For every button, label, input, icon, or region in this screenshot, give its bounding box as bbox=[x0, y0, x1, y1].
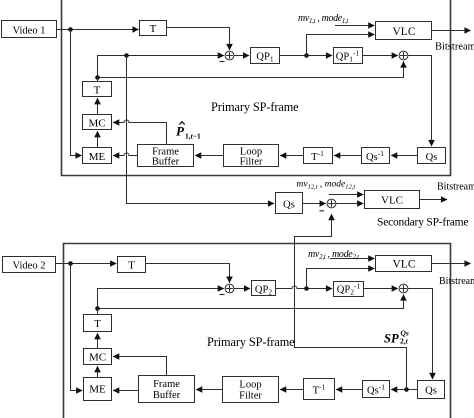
svg-text:Bitstream: Bitstream bbox=[437, 182, 474, 193]
wire Qs2 to Qs2inv bbox=[391, 389, 417, 391]
svg-text:VLC: VLC bbox=[393, 259, 416, 271]
block QP1inv bbox=[334, 48, 363, 64]
block Qs2inv bbox=[363, 381, 390, 398]
wire VLC1 to bitstream 1 bbox=[432, 30, 471, 32]
wire QP2inv to adder D2 bbox=[364, 288, 398, 290]
adder D1 bbox=[399, 51, 408, 60]
svg-text:P: P bbox=[176, 124, 185, 139]
Video 2 source box bbox=[3, 257, 56, 273]
svg-text:Filter: Filter bbox=[240, 157, 263, 168]
svg-text:Qs: Qs bbox=[425, 386, 437, 397]
subtractor S1 bbox=[225, 51, 234, 60]
block Loop Filter 2 bbox=[223, 377, 279, 403]
svg-text:Buffer: Buffer bbox=[152, 157, 180, 168]
wire Video1 to T1 bbox=[57, 29, 139, 31]
wire node C1 up to VLC1 bbox=[307, 35, 375, 56]
adder D2 bbox=[399, 284, 408, 293]
wire T2inv to Loop Filter 2 bbox=[280, 389, 303, 391]
block VLC1 bbox=[376, 22, 432, 40]
wire Frame Buffer 2 to MC2 bbox=[113, 357, 166, 376]
svg-text:ME: ME bbox=[89, 384, 106, 396]
wire Frame Buffer 1 to ME1 (hop over vertical) bbox=[113, 153, 137, 156]
subtractor S2 bbox=[225, 284, 234, 293]
wire Video2 to T3 bbox=[56, 263, 117, 265]
svg-text:T: T bbox=[94, 318, 101, 330]
wire T3 to subtractor S2 top bbox=[146, 264, 230, 283]
wire adder D2 to Qs2 bbox=[408, 289, 433, 380]
wire Frame Buffer 1 to MC1 (hop over vertical) bbox=[113, 120, 166, 145]
block MC1 bbox=[83, 115, 112, 130]
minus sign S2 bbox=[220, 294, 225, 296]
wire Loop Filter 2 to Frame Buffer 2 bbox=[196, 389, 222, 391]
block Loop Filter 1 bbox=[224, 145, 279, 167]
node E1 (junction at T2 top) bbox=[95, 75, 100, 80]
wire Loop Filter 1 to Frame Buffer 1 bbox=[195, 155, 223, 157]
svg-text:Buffer: Buffer bbox=[153, 390, 181, 401]
block T1 (transform) bbox=[140, 21, 167, 36]
block QP1 bbox=[251, 48, 280, 64]
wire T2 top stub bbox=[97, 78, 99, 82]
block T2 (prediction transform) bbox=[83, 82, 112, 97]
wire SP signal from node F up to secondary adder S3 bbox=[295, 214, 407, 389]
block Frame Buffer 2 bbox=[139, 376, 195, 403]
block Qs1 bbox=[418, 148, 446, 164]
block VLC3 bbox=[376, 256, 432, 272]
block ME2 bbox=[84, 378, 112, 401]
wire node A1 down to ME1 bbox=[71, 30, 82, 156]
svg-text:Qs: Qs bbox=[283, 200, 295, 211]
node A2 (tap on Video2 line) bbox=[68, 261, 73, 266]
svg-text:mv2,t , mode2,t: mv2,t , mode2,t bbox=[308, 249, 360, 261]
wire QP1 to QP1inv bbox=[280, 55, 333, 57]
block QP2inv bbox=[334, 282, 364, 297]
block T2inv bbox=[304, 379, 335, 400]
svg-text:1,t−1: 1,t−1 bbox=[185, 132, 201, 141]
block T1inv bbox=[304, 148, 333, 164]
node F (SP tap on Qs2 output) bbox=[404, 387, 409, 392]
svg-text:MC: MC bbox=[88, 118, 105, 130]
block QP2 bbox=[252, 281, 276, 296]
wire prediction into subtractor S2 bbox=[98, 289, 224, 309]
wire adder D1 to Qs1 bbox=[408, 56, 432, 147]
wire Frame Buffer 2 to ME2 bbox=[113, 390, 138, 392]
wire node C2 up to VLC3 bbox=[307, 269, 375, 289]
svg-text:Secondary SP-frame: Secondary SP-frame bbox=[377, 217, 468, 229]
svg-text:Qs: Qs bbox=[426, 152, 438, 163]
block Qs2 bbox=[418, 381, 445, 399]
wire node B1 down to secondary Qs bbox=[127, 56, 275, 204]
wire T4 top stub bbox=[97, 309, 99, 315]
svg-text:T: T bbox=[94, 85, 101, 97]
wire MC1 to T2 bbox=[97, 98, 99, 114]
svg-text:VLC: VLC bbox=[393, 26, 416, 38]
node C2 (tap to VLC3) bbox=[304, 286, 309, 291]
wire T1inv to Loop Filter 1 bbox=[280, 155, 303, 157]
block ME1 bbox=[83, 148, 112, 164]
node C1 (tap to VLC1) bbox=[304, 53, 309, 58]
outer box encoder 2 (bottom, open at image bottom) bbox=[64, 244, 451, 418]
wire mv12/mode12 to VLC2 bbox=[329, 194, 363, 196]
wire prediction into subtractor S1 bbox=[98, 56, 224, 78]
svg-text:Video 1: Video 1 bbox=[13, 26, 46, 37]
wire T1 to subtractor S1 top bbox=[167, 28, 230, 51]
svg-text:VLC: VLC bbox=[381, 195, 403, 207]
block VLC2 bbox=[365, 191, 420, 209]
wire MC2 to T4 bbox=[97, 333, 99, 348]
minus sign S1 bbox=[220, 61, 225, 63]
node A1 (tap on Video1 line) bbox=[68, 27, 73, 32]
svg-text:Bitstream: Bitstream bbox=[439, 276, 474, 287]
Video 1 source box bbox=[2, 21, 57, 38]
wire T4 output feedback to adder D2 bbox=[98, 295, 404, 309]
wire Qs2inv to T2inv bbox=[336, 389, 362, 391]
block Qs1inv bbox=[362, 148, 390, 164]
svg-text:Bitstream: Bitstream bbox=[435, 42, 474, 53]
wire ME2 to MC2 bbox=[97, 366, 99, 377]
svg-text:Video 2: Video 2 bbox=[13, 261, 46, 272]
wire VLC3 to bitstream 3 bbox=[432, 263, 471, 265]
node B1 (tap to secondary Qs) bbox=[124, 53, 129, 58]
block T3 (transform) bbox=[118, 257, 146, 273]
wire mv2/mode2 to VLC3 bbox=[330, 258, 374, 260]
outer box encoder 1 (top, open at image top) bbox=[62, 0, 451, 176]
svg-text:T: T bbox=[128, 260, 135, 272]
wire T2 output feedback to adder D1 bbox=[98, 62, 404, 78]
svg-text:2,t: 2,t bbox=[400, 337, 409, 346]
wire Qs1inv to T1inv bbox=[334, 155, 361, 157]
wire Qs3 to subtractor S3 bbox=[303, 203, 326, 205]
svg-text:mv12,t , mode12,t: mv12,t , mode12,t bbox=[297, 180, 356, 191]
wire S2 to QP2 bbox=[234, 288, 250, 290]
wire VLC2 to bitstream 2 bbox=[420, 199, 448, 201]
wire S3 to VLC2 bbox=[336, 203, 363, 205]
block MC2 bbox=[84, 349, 112, 365]
svg-text:Primary SP-frame: Primary SP-frame bbox=[211, 100, 299, 114]
wire QP2 to QP2inv (hop over SP line) bbox=[276, 286, 333, 289]
svg-text:Filter: Filter bbox=[239, 391, 262, 402]
svg-text:SP: SP bbox=[384, 332, 399, 346]
wire node A2 down to ME2 bbox=[71, 264, 83, 391]
svg-text:Frame: Frame bbox=[153, 379, 180, 390]
minus sign S3 bbox=[320, 210, 325, 212]
block T4 (prediction transform) bbox=[84, 315, 112, 332]
svg-text:mv1,t , mode1,t: mv1,t , mode1,t bbox=[298, 13, 349, 25]
svg-text:Primary SP-frame: Primary SP-frame bbox=[207, 335, 295, 349]
svg-text:MC: MC bbox=[89, 352, 106, 364]
wire ME1 to MC1 bbox=[97, 131, 99, 147]
node E2 (junction at T4 top) bbox=[95, 306, 100, 311]
wire QP1inv to adder D1 bbox=[363, 55, 398, 57]
svg-text:T: T bbox=[150, 23, 157, 35]
subtractor S3 bbox=[327, 199, 336, 208]
svg-text:Loop: Loop bbox=[239, 380, 261, 391]
block Frame Buffer 1 bbox=[138, 145, 194, 167]
block Qs3 (secondary quantizer) bbox=[276, 193, 303, 214]
wire Qs1 to Qs1inv bbox=[391, 155, 417, 157]
wire S1 to QP1 bbox=[234, 55, 249, 57]
wire mv/mode to VLC1 bbox=[335, 25, 374, 27]
svg-text:ME: ME bbox=[89, 151, 106, 163]
